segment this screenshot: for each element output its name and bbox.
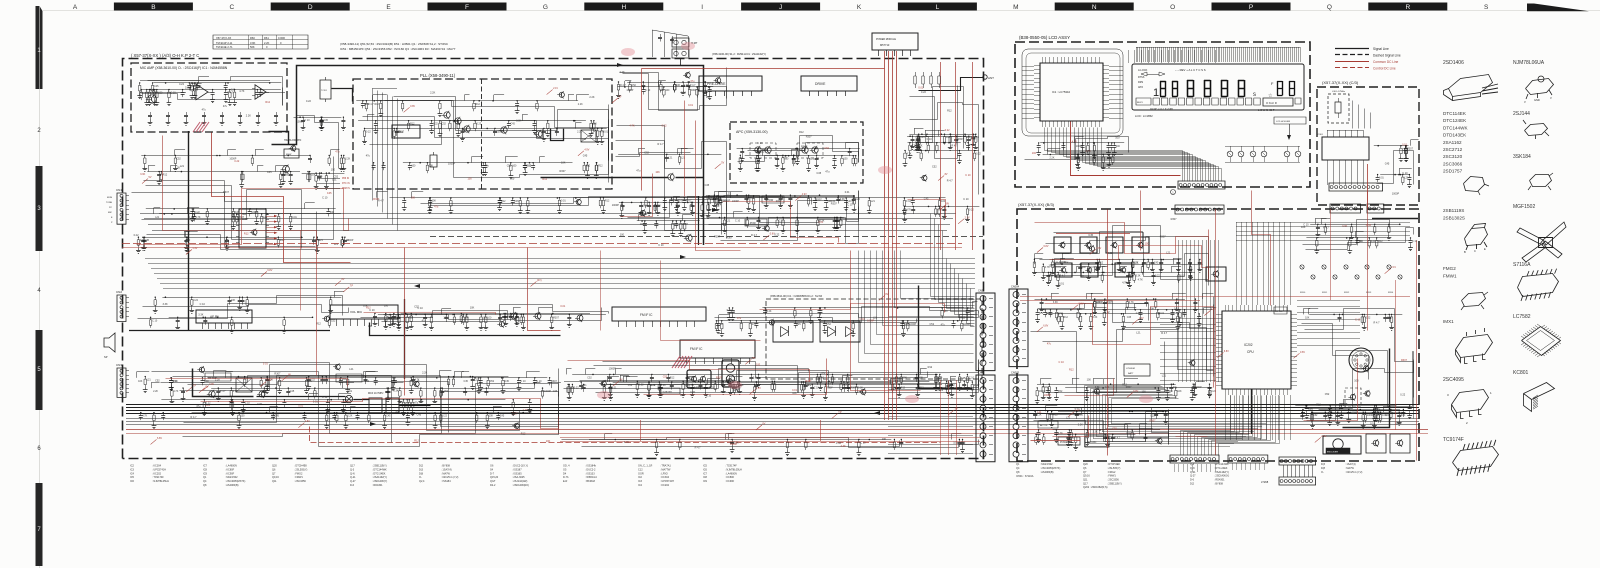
long bus lines center band (140, 214, 956, 231)
svg-text:: ISS165: : ISS165 (512, 472, 522, 475)
svg-text:IC5: IC5 (703, 465, 708, 468)
svg-text:3.3K: 3.3K (1092, 316, 1097, 319)
svg-text:S7116A: S7116A (1513, 262, 1531, 268)
svg-text:: ISS184: : ISS184 (441, 480, 451, 483)
thick rx line (193, 369, 254, 397)
svg-text:10K: 10K (138, 380, 143, 383)
svg-text:2.2K: 2.2K (430, 91, 435, 94)
svg-text:Q-21: Q-21 (350, 476, 356, 479)
svg-text:0.22: 0.22 (675, 204, 680, 207)
parts table top left (213, 35, 308, 49)
svg-text:(X58-3100-00) S1,2 : FMW-H: (X58-3100-00) S1,2 : FMW-H D1 : 2SA1162(… (712, 52, 766, 56)
svg-text:4.7K: 4.7K (1122, 282, 1127, 285)
svg-text:4.7K: 4.7K (173, 390, 178, 393)
svg-text:8V: 8V (945, 173, 948, 176)
svg-text:0.8V: 0.8V (1300, 351, 1305, 354)
svg-text:L21: L21 (474, 379, 479, 382)
svg-text:L21: L21 (848, 200, 853, 203)
mic amp rails and parts (140, 77, 285, 101)
APC parts (737, 149, 860, 156)
wires CN203 to CT204 (1284, 465, 1313, 477)
extra comb below CPU (1226, 395, 1291, 440)
svg-text:3.3K: 3.3K (718, 323, 723, 326)
transistor Q53 (464, 126, 470, 132)
svg-text:0.01: 0.01 (612, 386, 617, 389)
svg-text:C 10: C 10 (965, 174, 971, 177)
svg-text:47u: 47u (737, 317, 742, 320)
svg-text:R5M IN: R5M IN (342, 188, 350, 190)
transistor pair APC 2 (802, 147, 818, 153)
svg-text:DTD143EK: DTD143EK (1443, 133, 1467, 138)
mic amp bottom row caps (151, 112, 277, 120)
svg-text:: 2SC4095(MX7K): : 2SC4095(MX7K) (1040, 467, 1060, 470)
bottom band parts right (564, 375, 942, 385)
svg-text:1000P: 1000P (626, 89, 633, 92)
package 2SC4095 SOT6 (1452, 390, 1489, 419)
svg-text:4.7K: 4.7K (629, 125, 634, 128)
svg-text:L21: L21 (583, 384, 588, 387)
svg-text:R 4.7: R 4.7 (1323, 226, 1329, 229)
LCD bottom caps row (1040, 143, 1124, 155)
svg-text:6.8V: 6.8V (1224, 350, 1229, 353)
svg-text:R307: R307 (709, 386, 715, 389)
svg-text:IC2: IC2 (638, 476, 643, 479)
svg-text:0.01: 0.01 (1052, 274, 1057, 277)
red B3 horizontals (1020, 296, 1410, 298)
svg-text:: MA7W: : MA7W (441, 472, 451, 475)
svg-text:: KC90F: : KC90F (225, 472, 235, 475)
svg-text:: MGF1502: : MGF1502 (225, 476, 238, 479)
svg-text:R204: R204 (1388, 292, 1394, 294)
svg-text:: ISS184b: : ISS184b (585, 465, 597, 468)
bottom band parts right lower (589, 439, 891, 441)
svg-text:R 4.7: R 4.7 (1060, 274, 1066, 277)
svg-text:1.4V: 1.4V (192, 247, 197, 250)
svg-text:CN004: CN004 (1011, 285, 1020, 289)
svg-text:C 10: C 10 (706, 395, 712, 398)
svg-text:R 4.7: R 4.7 (695, 447, 702, 450)
svg-text:C45: C45 (583, 155, 588, 158)
svg-text:10K: 10K (546, 440, 551, 443)
svg-text:10K: 10K (655, 171, 660, 174)
svg-text:R202: R202 (1344, 292, 1350, 294)
svg-text:O N A I R: O N A I R (1266, 101, 1277, 105)
svg-text:R 4.7: R 4.7 (686, 200, 692, 203)
svg-text:C 10: C 10 (369, 309, 375, 312)
svg-text:2SD1406: 2SD1406 (1443, 60, 1464, 66)
svg-text:L301 4.7MHz: L301 4.7MHz (1332, 91, 1345, 93)
svg-text:100: 100 (844, 158, 849, 161)
connector CN1 left (117, 193, 126, 224)
thick vertical below CPU (1251, 389, 1253, 434)
RF AMP label (205, 373, 231, 381)
Q215 dashed box (1345, 388, 1361, 407)
red bottom cluster verticals (641, 420, 821, 441)
svg-text:C 10: C 10 (171, 92, 177, 95)
svg-text:: MA7W: : MA7W (1345, 467, 1355, 470)
svg-text:FM IF IC: FM IF IC (640, 313, 653, 317)
svg-text:R12: R12 (414, 439, 419, 442)
svg-text:SW BF 1 3 5: SW BF 1 3 5 7 9 OVER (1150, 109, 1173, 111)
svg-text:Dashed Signal Line: Dashed Signal Line (1373, 54, 1401, 58)
svg-text:L21: L21 (1134, 262, 1139, 265)
svg-text:C52: C52 (507, 165, 512, 168)
svg-text:R12: R12 (542, 178, 547, 181)
svg-text:C 10: C 10 (1355, 319, 1361, 322)
svg-text:CPU: CPU (1247, 350, 1254, 354)
svg-text:10K: 10K (1150, 307, 1155, 310)
svg-text:L21: L21 (1126, 432, 1131, 435)
svg-text:: TRA7A1: : TRA7A1 (660, 465, 671, 468)
svg-text:: KC304: : KC304 (152, 465, 162, 468)
svg-text:R12: R12 (366, 306, 371, 309)
legend dashed signal line (1335, 54, 1369, 56)
svg-text:C 10: C 10 (906, 200, 912, 203)
svg-text:F: F (465, 4, 469, 11)
svg-text:: DTCH4EK: : DTCH4EK (1107, 463, 1120, 466)
svg-text:C 10: C 10 (735, 220, 741, 223)
svg-text:: FMG2: : FMG2 (1107, 471, 1116, 474)
svg-text:R12: R12 (939, 389, 944, 392)
svg-text:DTC114EK: DTC114EK (1443, 111, 1467, 116)
C3 L301 dashed subblock (1328, 94, 1349, 123)
svg-text:C52: C52 (587, 376, 592, 379)
svg-text:R 4.7: R 4.7 (368, 103, 374, 106)
svg-text:Q2,4: Q2,4 (419, 480, 425, 483)
svg-text:: TC9174F: : TC9174F (152, 476, 164, 479)
svg-text:LCD HOLDER: LCD HOLDER (1276, 121, 1291, 123)
svg-text:: W5R1G4: : W5R1G4 (585, 476, 597, 479)
squelch box 2 (722, 360, 739, 387)
svg-text:0.22: 0.22 (945, 129, 950, 132)
svg-text:: DTC144WK: : DTC144WK (1214, 463, 1229, 466)
svg-text:100: 100 (582, 138, 587, 141)
svg-text:: DUC2-2: : DUC2-2 (585, 468, 596, 471)
left long bus wires (145, 259, 975, 289)
svg-text:2.2K: 2.2K (578, 103, 583, 106)
svg-text:0.22: 0.22 (774, 233, 779, 236)
svg-text:: 2SA-3025: : 2SA-3025 (512, 476, 525, 479)
svg-text:L21: L21 (1066, 417, 1071, 420)
svg-text:D(8: D(8 (419, 472, 424, 475)
svg-text:PLL (X58-3490-11): PLL (X58-3490-11) (420, 73, 456, 78)
svg-text:R307: R307 (726, 237, 733, 240)
svg-text:R 4.7: R 4.7 (620, 84, 626, 87)
svg-text:C45: C45 (327, 192, 332, 195)
svg-text:1000P: 1000P (867, 320, 875, 323)
svg-text:L21: L21 (1162, 375, 1167, 378)
svg-text:C45: C45 (396, 130, 401, 133)
svg-text:DTC124EK: DTC124EK (1443, 118, 1467, 123)
svg-text:R307: R307 (1150, 420, 1157, 423)
transistor PLL right 2 (536, 131, 542, 137)
svg-text:R12: R12 (901, 386, 906, 389)
connector strip CN201 (1170, 455, 1219, 463)
transistor Q52 (455, 118, 461, 124)
svg-text:Q9,16: Q9,16 (272, 476, 279, 479)
red apc feeds (685, 101, 741, 251)
svg-text:R307: R307 (806, 136, 813, 139)
svg-text:IC7: IC7 (203, 465, 208, 468)
svg-text:L21: L21 (685, 84, 690, 87)
red dashed rx outline (310, 427, 941, 443)
svg-text:2.2K: 2.2K (347, 415, 352, 418)
svg-text:8V: 8V (288, 373, 291, 376)
svg-text:4.9V: 4.9V (584, 148, 589, 151)
svg-text:C52: C52 (632, 84, 637, 87)
Q205 box (1206, 267, 1226, 281)
svg-text:IC5: IC5 (130, 476, 135, 479)
svg-text:0.22: 0.22 (1375, 412, 1380, 415)
svg-text:: KC304: : KC304 (660, 476, 670, 479)
svg-text:0.22: 0.22 (727, 309, 732, 312)
H POW label (762, 196, 784, 203)
svg-text:10K: 10K (882, 438, 887, 441)
svg-text:8V: 8V (946, 203, 949, 206)
svg-text:6.8V: 6.8V (1043, 324, 1048, 327)
package 2SB1119S (1465, 224, 1488, 246)
thick audio feed vertical (188, 131, 190, 330)
svg-text:LC7582: LC7582 (1513, 314, 1531, 320)
wires QFP to connector (1045, 128, 1222, 182)
svg-text:LCD : LC1852: LCD : LC1852 (1135, 114, 1153, 118)
svg-text:IC7: IC7 (703, 472, 708, 475)
svg-text:1000P: 1000P (609, 367, 617, 370)
svg-text:100: 100 (510, 178, 515, 181)
svg-text:6.8V: 6.8V (1044, 245, 1049, 248)
svg-text:: MGF1502: : MGF1502 (1040, 463, 1053, 466)
svg-text:100: 100 (941, 200, 946, 203)
svg-text:D-7b: D-7b (563, 476, 569, 479)
svg-text:0.22: 0.22 (976, 153, 981, 156)
IF MIX label (336, 374, 362, 382)
svg-text:C 10: C 10 (658, 244, 664, 247)
svg-text:3.3K: 3.3K (185, 87, 190, 90)
svg-text:3.9K: 3.9K (250, 41, 256, 45)
horizontal bundle into CPU left (1160, 319, 1216, 381)
svg-text:0.01: 0.01 (1370, 423, 1375, 426)
svg-text:(X57-37(X-XX) (B/3): (X57-37(X-XX) (B/3) (1018, 202, 1055, 207)
red callouts scattered (795, 196, 801, 201)
red power module feeds extended (885, 230, 897, 420)
svg-text:CN3: CN3 (116, 363, 122, 367)
package FMG2 (1462, 293, 1486, 307)
wires trim caps (1225, 146, 1300, 163)
svg-text:R 4.7: R 4.7 (690, 84, 696, 87)
svg-text:R307: R307 (776, 200, 783, 203)
opto-isolator box row 2 (1055, 263, 1132, 277)
svg-text:2.2K: 2.2K (589, 96, 594, 99)
svg-text:C52: C52 (1112, 427, 1117, 430)
buffer stage parts (618, 83, 722, 87)
svg-text:C 10: C 10 (757, 142, 763, 145)
svg-text:0.01: 0.01 (918, 87, 923, 90)
svg-text:IC4: IC4 (130, 472, 135, 475)
svg-text:2SC4095: 2SC4095 (1443, 377, 1464, 383)
resistor ladder right side (914, 72, 940, 88)
svg-text:2.2K: 2.2K (1050, 157, 1055, 160)
svg-text:0.22: 0.22 (366, 130, 371, 133)
svg-text:10K: 10K (657, 204, 662, 207)
svg-text:Q11: Q11 (1083, 479, 1088, 482)
svg-text:: AS4084(B): : AS4084(B) (225, 484, 239, 487)
svg-text:Q11: Q11 (272, 480, 277, 483)
svg-text:100: 100 (368, 325, 373, 328)
connector CN205 top (1175, 205, 1224, 214)
svg-text:C 10: C 10 (322, 196, 328, 199)
svg-text:: KC80F: : KC80F (225, 468, 235, 471)
svg-text:0.22: 0.22 (921, 91, 926, 94)
svg-text:Q-3: Q-3 (350, 468, 355, 471)
POWER label box (1058, 437, 1080, 445)
svg-text:(0V): (0V) (537, 279, 542, 282)
svg-text:1000P: 1000P (1049, 264, 1057, 267)
svg-text:T.P: T.P (838, 411, 842, 414)
svg-text:3SK184: 3SK184 (1513, 154, 1531, 160)
svg-text:TCXO: TCXO (321, 90, 327, 92)
connector CN005 (1009, 375, 1028, 462)
svg-text:D-6: D-6 (1190, 479, 1195, 482)
svg-text:DTSS: DTSS (1138, 76, 1145, 79)
POWER MODULE box (872, 33, 918, 50)
svg-text:10K: 10K (593, 123, 598, 126)
svg-text:C 10: C 10 (305, 119, 311, 122)
vertical bundle CPU bottom to connectors (1181, 396, 1280, 456)
SG VOL box (1274, 307, 1287, 314)
svg-text:3.3K: 3.3K (196, 85, 201, 88)
svg-text:C45: C45 (500, 415, 505, 418)
svg-text:H: H (621, 4, 626, 11)
svg-text:2.1V: 2.1V (1321, 435, 1326, 438)
svg-text:: BKRG8: : BKRG8 (585, 480, 595, 483)
red dc line long horizontal (122, 243, 962, 245)
svg-text:0.22: 0.22 (1366, 316, 1371, 319)
transistor Q1 mic amp (148, 95, 156, 103)
svg-text:LITHIUM: LITHIUM (1126, 368, 1135, 370)
svg-text:R12: R12 (410, 123, 415, 126)
svg-text:: 1SA7(4): : 1SA7(4) (1345, 463, 1356, 466)
svg-text:C 10: C 10 (681, 91, 687, 94)
svg-text:R200: R200 (1300, 292, 1306, 294)
svg-text:3.3K: 3.3K (841, 445, 846, 448)
svg-text:10K: 10K (489, 415, 494, 418)
svg-text:Q-27: Q-27 (350, 480, 356, 483)
svg-text:: ISS187: : ISS187 (512, 468, 522, 471)
svg-text:C45: C45 (505, 380, 510, 383)
svg-text:T.P: T.P (752, 357, 756, 360)
svg-text:R307: R307 (274, 373, 281, 376)
svg-text:100: 100 (570, 386, 575, 389)
svg-text:GGR: GGR (638, 472, 644, 475)
svg-text:R12: R12 (521, 433, 526, 436)
transistor Q51 (444, 112, 450, 118)
svg-text:R307: R307 (373, 198, 380, 201)
svg-text:0.01: 0.01 (1174, 308, 1179, 311)
svg-text:R12: R12 (1099, 262, 1104, 265)
svg-text:ANT: ANT (988, 76, 994, 80)
svg-text:IC301: IC301 (1317, 134, 1324, 136)
svg-text:C52: C52 (271, 415, 276, 418)
vertical wires QFP top to LCD (1129, 50, 1216, 63)
svg-text:Q-21: Q-21 (1190, 471, 1196, 474)
svg-text:GND: GND (1534, 98, 1540, 102)
C3 right parts (1374, 146, 1410, 175)
svg-text:R203: R203 (1366, 292, 1372, 294)
svg-text:IC51 : MB1501PF Q54 : 2SC3: IC51 : MB1501PF Q54 : 2SC3356 D52 : ISV1… (340, 47, 456, 51)
svg-text:Q-3: Q-3 (1190, 463, 1195, 466)
svg-text:10K: 10K (561, 162, 566, 165)
svg-text:2SC3120: 2SC3120 (1443, 154, 1463, 159)
svg-text:1000P: 1000P (1059, 261, 1067, 264)
svg-text:2.2K: 2.2K (422, 372, 427, 375)
svg-text:D: D (308, 4, 313, 11)
svg-text:C 10: C 10 (779, 220, 785, 223)
svg-text:C 10: C 10 (1412, 240, 1418, 243)
svg-text:8V: 8V (885, 293, 888, 296)
svg-text:L21: L21 (726, 220, 731, 223)
red wire C3 (1367, 164, 1369, 208)
svg-text:: AS4084(B): : AS4084(B) (1040, 471, 1054, 474)
svg-text:3.3K: 3.3K (690, 391, 695, 394)
svg-text:C52: C52 (490, 380, 495, 383)
svg-text:L: L (936, 4, 940, 11)
red fan out of ISW CONT (274, 215, 278, 217)
svg-text:C45: C45 (1385, 163, 1390, 166)
svg-text:C 10: C 10 (322, 396, 328, 399)
svg-text:IC9: IC9 (203, 472, 208, 475)
thick rx chain line (257, 397, 431, 406)
connector CN5 (976, 293, 995, 371)
svg-text:47u: 47u (335, 151, 340, 154)
C3 upper wires (1353, 101, 1371, 129)
svg-text:R307: R307 (223, 191, 230, 194)
svg-text:X57-37(X-XX: X57-37(X-XX (216, 36, 232, 40)
svg-text:: 1SA7(4): : 1SA7(4) (441, 468, 452, 471)
svg-text:47u: 47u (731, 310, 736, 313)
svg-text:APC (X59-3130-00): APC (X59-3130-00) (736, 130, 768, 134)
svg-text:Q20: Q20 (272, 465, 277, 468)
package NJM78L06UA (1526, 76, 1554, 99)
svg-text:V: V (1550, 96, 1552, 100)
ribbon comb top (1137, 47, 1301, 62)
svg-text:1.4V: 1.4V (1075, 409, 1080, 412)
long bus lines bottom (126, 405, 1419, 414)
svg-text:: LA4600N: : LA4600N (225, 465, 237, 468)
svg-text:R307: R307 (1160, 236, 1167, 239)
svg-text:R 4.7: R 4.7 (1374, 321, 1381, 324)
svg-text:TM-941E 2-71: TM-941E 2-71 (216, 45, 233, 49)
FM IF box (680, 340, 755, 358)
svg-text:POWER MODULE: POWER MODULE (876, 38, 896, 41)
svg-text:3.3K: 3.3K (163, 303, 168, 306)
svg-text:: 2SD1406(Y): : 2SD1406(Y) (1214, 475, 1229, 478)
trimmer row 1 (1300, 265, 1391, 269)
svg-text:C52: C52 (409, 317, 414, 320)
svg-text:: RD4301: : RD4301 (372, 484, 383, 487)
svg-text:47u: 47u (366, 155, 371, 158)
svg-text:47u: 47u (507, 315, 512, 318)
svg-text:C52: C52 (644, 151, 649, 154)
svg-text:100: 100 (411, 196, 416, 199)
svg-text:2.2K: 2.2K (153, 390, 158, 393)
connector CN208 right wide (1329, 183, 1383, 191)
svg-text:0.22: 0.22 (179, 83, 184, 86)
red feed along top (642, 69, 885, 191)
svg-text:C52: C52 (824, 147, 829, 150)
svg-text:Q-N: Q-N (350, 472, 355, 475)
package 2SC3066 flat (1464, 177, 1485, 192)
jack J201 round connector (1349, 348, 1373, 372)
